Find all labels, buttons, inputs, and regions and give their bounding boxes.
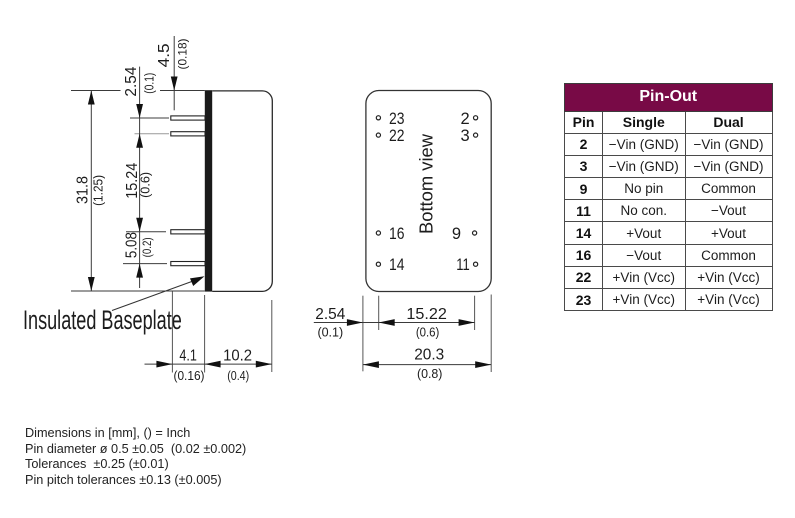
svg-text:(0.6): (0.6) (416, 325, 440, 339)
leader arrowhead (190, 276, 205, 286)
extension line pin tip (171, 292, 173, 373)
Pin-Out table (564, 83, 773, 311)
side view: bottom extension line (71, 290, 205, 292)
side view pin 4 (171, 262, 205, 266)
svg-text:(0.8): (0.8) (417, 367, 443, 381)
bottom view body (366, 91, 491, 292)
svg-text:9: 9 (452, 225, 461, 243)
arrow right at 271.8 (256, 361, 272, 368)
arrow up at pin4 (136, 264, 143, 278)
extension line pin column left (378, 296, 380, 330)
extension line case right (271, 300, 273, 372)
arrow left at 204.6 (205, 361, 221, 368)
side view pin 3 (171, 230, 205, 234)
dimension line 2.54 / 15.22 (314, 322, 475, 324)
pin number labels (389, 110, 470, 274)
svg-text:(0.4): (0.4) (227, 369, 249, 383)
bottom view dim labels (315, 306, 447, 381)
svg-text:31.8: 31.8 (74, 176, 91, 204)
arrow right at 491.2 (475, 361, 491, 368)
arrow right at 172.4 (156, 361, 172, 368)
pin 11 hole (474, 262, 478, 266)
arrow 2.54 down at pin1 (136, 104, 143, 118)
side view bottom dimension extension lines (172, 292, 271, 373)
arrow 31.8 bottom (88, 277, 95, 291)
side view: top extension line (71, 90, 205, 92)
extension line case left (bottom view) (362, 296, 364, 372)
svg-text:20.3: 20.3 (414, 347, 444, 364)
svg-text:Bottom view: Bottom view (416, 133, 437, 234)
pin hole circles (376, 116, 477, 267)
pin 9 hole (473, 231, 477, 235)
side view: pin4 extension line (123, 263, 167, 265)
extension line pin column right (474, 296, 476, 330)
dimension line 4.1 / 10.2 (145, 363, 272, 365)
extension line baseplate face (204, 295, 206, 373)
svg-text:2.54: 2.54 (315, 306, 345, 323)
svg-text:(0.16): (0.16) (174, 369, 205, 383)
svg-text:22: 22 (389, 127, 405, 145)
extension line case right (bottom view) (490, 295, 492, 373)
svg-text:11: 11 (456, 256, 470, 274)
svg-text:(1.25): (1.25) (91, 175, 105, 206)
pin 23 hole (376, 116, 380, 120)
arrowheads vertical dims (88, 77, 178, 292)
pin 2 hole (474, 116, 478, 120)
side view: pin2 extension line (135, 133, 170, 135)
side view: pin1 extension line (130, 117, 169, 119)
svg-text:Insulated Baseplate: Insulated Baseplate (23, 304, 182, 335)
footnotes (25, 426, 246, 490)
arrow 4.5 down at top line (171, 77, 178, 91)
pin 16 hole (376, 231, 380, 235)
pin 3 hole (474, 133, 478, 137)
pin 14 hole (376, 262, 380, 266)
side view: body outline (212, 91, 272, 292)
bottom view extension lines (363, 295, 491, 373)
svg-text:(0.2): (0.2) (140, 237, 154, 257)
arrow right at 474.6 (459, 319, 475, 326)
svg-text:16: 16 (389, 225, 405, 243)
svg-text:3: 3 (461, 127, 470, 145)
side view: body black baseplate bar (205, 90, 212, 291)
arrow up at pin2 (136, 134, 143, 148)
labels 4.1 / 10.2 (174, 348, 253, 384)
side view pin 1 (171, 116, 205, 120)
svg-text:15.22: 15.22 (406, 306, 447, 323)
side view pin 2 (171, 132, 205, 136)
svg-text:(0.1): (0.1) (317, 325, 343, 339)
pin 22 hole (376, 133, 380, 137)
svg-text:23: 23 (389, 110, 405, 128)
svg-text:(0.18): (0.18) (176, 39, 190, 70)
arrow 31.8 top (88, 91, 95, 105)
svg-text:5.08: 5.08 (124, 232, 141, 258)
svg-text:(0.1): (0.1) (143, 73, 157, 94)
svg-text:14: 14 (389, 256, 405, 274)
arrow left at 378.7 (379, 319, 395, 326)
side view: pin3 extension line (126, 231, 166, 233)
dimension 31.8 line (90, 91, 92, 292)
svg-text:2: 2 (461, 110, 470, 128)
dimension chain line (2.54 / 15.24 / 5.08) (139, 67, 141, 288)
arrow down at pin3 (136, 218, 143, 232)
svg-text:4.5: 4.5 (156, 43, 173, 67)
dimension 4.5 line (173, 36, 175, 110)
arrow right at 362.9 (347, 319, 363, 326)
dimension line 20.3 (363, 364, 491, 366)
svg-text:2.54: 2.54 (123, 67, 140, 97)
svg-text:(0.6): (0.6) (139, 172, 153, 198)
svg-text:10.2: 10.2 (223, 348, 252, 365)
leader line to baseplate (112, 279, 200, 311)
svg-text:4.1: 4.1 (179, 348, 197, 365)
arrow left at 362.9 (363, 361, 379, 368)
rotated dim labels (side view) (74, 39, 189, 259)
